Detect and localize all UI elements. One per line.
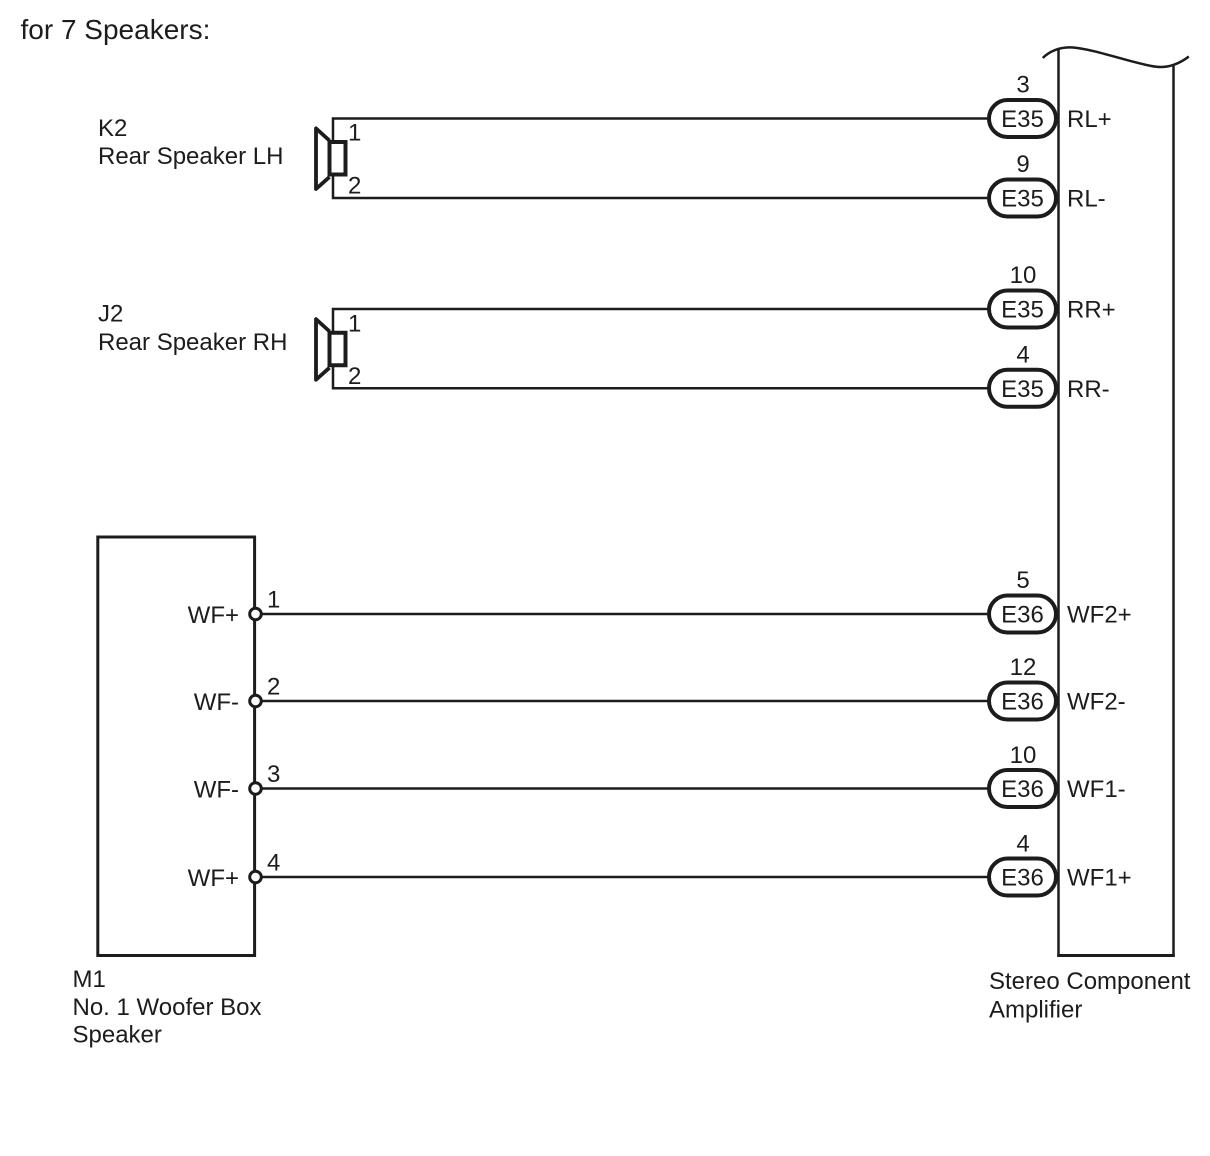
svg-text:M1: M1 xyxy=(73,966,106,993)
svg-text:12: 12 xyxy=(1010,654,1037,681)
svg-text:RR+: RR+ xyxy=(1067,297,1116,324)
svg-text:WF1+: WF1+ xyxy=(1067,865,1132,892)
svg-text:WF-: WF- xyxy=(194,689,239,716)
svg-text:E36: E36 xyxy=(1001,776,1044,803)
svg-text:E35: E35 xyxy=(1001,376,1044,403)
svg-text:WF2+: WF2+ xyxy=(1067,602,1132,629)
svg-text:3: 3 xyxy=(267,761,280,788)
svg-text:WF2-: WF2- xyxy=(1067,689,1126,716)
svg-text:E35: E35 xyxy=(1001,297,1044,324)
svg-text:3: 3 xyxy=(1016,72,1029,99)
svg-text:10: 10 xyxy=(1010,742,1037,769)
svg-text:RL+: RL+ xyxy=(1067,106,1112,133)
svg-text:WF-: WF- xyxy=(194,777,239,804)
svg-text:1: 1 xyxy=(267,587,280,614)
svg-text:Amplifier: Amplifier xyxy=(989,997,1082,1024)
svg-text:4: 4 xyxy=(1016,831,1029,858)
svg-text:9: 9 xyxy=(1016,151,1029,178)
svg-text:E35: E35 xyxy=(1001,106,1044,133)
svg-text:No. 1 Woofer Box: No. 1 Woofer Box xyxy=(73,994,262,1021)
svg-text:WF+: WF+ xyxy=(188,865,239,892)
svg-text:5: 5 xyxy=(1016,567,1029,594)
svg-text:RR-: RR- xyxy=(1067,376,1110,403)
svg-text:E35: E35 xyxy=(1001,186,1044,213)
svg-text:J2: J2 xyxy=(98,301,123,328)
svg-text:K2: K2 xyxy=(98,115,127,142)
svg-text:10: 10 xyxy=(1010,262,1037,289)
svg-text:Rear Speaker LH: Rear Speaker LH xyxy=(98,143,283,170)
svg-text:Rear Speaker RH: Rear Speaker RH xyxy=(98,329,287,356)
svg-text:1: 1 xyxy=(348,310,361,337)
svg-text:1: 1 xyxy=(348,120,361,147)
svg-text:2: 2 xyxy=(348,173,361,200)
svg-text:WF+: WF+ xyxy=(188,602,239,629)
svg-text:E36: E36 xyxy=(1001,602,1044,629)
svg-text:Speaker: Speaker xyxy=(73,1022,162,1049)
svg-text:for 7 Speakers:: for 7 Speakers: xyxy=(21,14,211,45)
svg-text:4: 4 xyxy=(1016,341,1029,368)
svg-text:Stereo Component: Stereo Component xyxy=(989,968,1191,995)
svg-text:WF1-: WF1- xyxy=(1067,776,1126,803)
svg-text:2: 2 xyxy=(267,674,280,701)
svg-text:4: 4 xyxy=(267,850,280,877)
svg-text:E36: E36 xyxy=(1001,689,1044,716)
svg-text:RL-: RL- xyxy=(1067,186,1106,213)
svg-text:E36: E36 xyxy=(1001,865,1044,892)
svg-text:2: 2 xyxy=(348,363,361,390)
